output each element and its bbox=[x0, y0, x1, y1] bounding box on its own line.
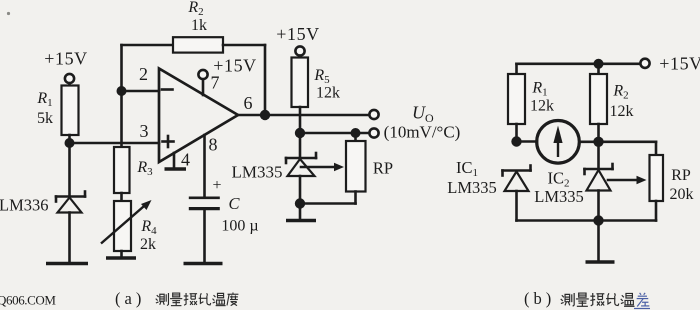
svg-text:+15V: +15V bbox=[44, 49, 88, 69]
wire R5 bottom down to LM335 bbox=[299, 107, 302, 158]
ground below LM335 bbox=[286, 219, 316, 223]
wire pin2 horizontal bbox=[122, 90, 160, 93]
capacitor C bbox=[189, 198, 220, 209]
svg-text:LM335: LM335 bbox=[232, 163, 283, 182]
wire output pin6 line bbox=[238, 114, 369, 117]
svg-text:RP: RP bbox=[671, 167, 691, 184]
node line2 junction bbox=[295, 128, 305, 138]
wire line2 to second terminal bbox=[300, 132, 369, 135]
svg-text:12k: 12k bbox=[316, 85, 340, 102]
wire IC2 bottom bbox=[597, 191, 600, 221]
svg-text:+: + bbox=[212, 177, 221, 194]
wire LM335 bottom bbox=[299, 176, 302, 204]
wire R1b bottom bbox=[515, 124, 518, 142]
node feedback/output junction bbox=[260, 110, 270, 120]
label R5 12k bbox=[313, 67, 340, 102]
svg-text:1k: 1k bbox=[191, 17, 207, 34]
temp sensor LM335 bbox=[286, 153, 316, 176]
svg-text:2: 2 bbox=[139, 64, 148, 84]
resistor R2 bbox=[173, 37, 223, 52]
wire R1b top stub bbox=[515, 64, 518, 74]
resistor R5 bbox=[292, 58, 309, 108]
wire R2b top stub bbox=[597, 64, 600, 74]
svg-text:20k: 20k bbox=[670, 186, 694, 203]
wire R1 bottom to node bbox=[68, 135, 71, 143]
wire feedback right vertical bbox=[264, 45, 267, 115]
arrow LM335 to RP bbox=[301, 163, 344, 172]
svg-text:7: 7 bbox=[211, 73, 220, 93]
resistor R2 b bbox=[590, 74, 607, 124]
svg-text:12k: 12k bbox=[530, 98, 554, 115]
wire meter right bbox=[580, 141, 599, 144]
svg-text:R2: R2 bbox=[612, 83, 628, 102]
resistor R1 b bbox=[508, 74, 525, 124]
svg-text:R2: R2 bbox=[187, 0, 203, 18]
svg-text:R5: R5 bbox=[313, 67, 330, 86]
op-amp minus sign bbox=[162, 88, 173, 91]
output terminal Uo bbox=[369, 110, 378, 119]
wire RP b top vertical bbox=[655, 142, 658, 155]
supply terminal +15V for R5 bbox=[276, 24, 320, 56]
svg-text:LM335: LM335 bbox=[534, 187, 584, 206]
caption a chinese: 测量摄氏温度 bbox=[156, 293, 239, 306]
wire ground stub LM335 bbox=[299, 204, 302, 220]
svg-text:6: 6 bbox=[244, 93, 253, 113]
wire R2b bottom through node to IC2 bbox=[597, 124, 600, 169]
node LM335/RP bottom junction bbox=[295, 198, 305, 208]
svg-text:8: 8 bbox=[209, 135, 218, 155]
wire R1 top bbox=[68, 83, 71, 86]
op-amp plus sign bbox=[163, 136, 174, 147]
temp sensor IC1 LM335 bbox=[503, 166, 531, 192]
label R2 1k bbox=[187, 0, 207, 34]
caption b chinese: 测量摄氏温差 bbox=[561, 293, 650, 309]
svg-text:R1: R1 bbox=[36, 90, 52, 109]
node pin2 junction bbox=[117, 86, 127, 96]
ground below LM336 bbox=[46, 262, 88, 266]
wire capacitor to ground bbox=[203, 209, 206, 263]
wire ground stub b bbox=[597, 221, 600, 262]
svg-text:R4: R4 bbox=[140, 218, 157, 237]
zener reference LM336 bbox=[56, 192, 85, 213]
label R4 2k bbox=[140, 218, 157, 253]
resistor R1 bbox=[62, 86, 79, 136]
wire R3 to R4 bbox=[120, 193, 123, 201]
svg-text:+15V: +15V bbox=[213, 56, 257, 76]
potentiometer R4 bbox=[101, 200, 152, 251]
wire node to RP b bbox=[599, 141, 657, 144]
wire pin8 down to capacitor bbox=[203, 135, 206, 197]
svg-text:R1: R1 bbox=[531, 80, 547, 99]
label IC2 LM335 bbox=[534, 169, 584, 207]
node junction R1/pin3/LM336 bbox=[65, 138, 75, 148]
wire IC1 bottom bbox=[515, 191, 518, 221]
wire pin3 horizontal bbox=[70, 142, 160, 145]
wire R4 to ground bbox=[120, 251, 123, 257]
svg-text:LM335: LM335 bbox=[447, 178, 497, 197]
node bottom rail junction bbox=[593, 215, 603, 225]
node RP top junction bbox=[351, 128, 361, 138]
node meter left bbox=[511, 136, 521, 146]
op-amp U1 bbox=[159, 69, 238, 163]
svg-text:12k: 12k bbox=[610, 103, 634, 120]
ground below R4 bbox=[106, 256, 136, 260]
wire node down to LM336 bbox=[68, 143, 71, 197]
ground pin4 bbox=[165, 167, 187, 171]
wire top rail b bbox=[517, 62, 641, 65]
arrow IC2 to RP b bbox=[608, 176, 647, 185]
svg-text:(10mV/°C): (10mV/°C) bbox=[384, 123, 461, 142]
svg-text:+15V: +15V bbox=[276, 24, 320, 44]
svg-text:C: C bbox=[228, 194, 240, 213]
potentiometer RP bbox=[300, 133, 366, 204]
node top rail junction bbox=[594, 59, 604, 69]
svg-text:IC1: IC1 bbox=[456, 158, 478, 179]
svg-text:LM336: LM336 bbox=[0, 196, 49, 215]
wire feedback top left bbox=[122, 44, 174, 47]
pin 4 ground stub bbox=[173, 153, 176, 168]
svg-text:100 µ: 100 µ bbox=[221, 218, 258, 235]
potentiometer RP b bbox=[650, 155, 664, 201]
svg-text:(b): (b) bbox=[524, 289, 555, 308]
wire LM336 to ground bbox=[68, 213, 71, 263]
svg-text:(a): (a) bbox=[115, 289, 145, 308]
label R2b 12k bbox=[610, 83, 634, 121]
svg-text:3: 3 bbox=[140, 121, 149, 141]
resistor R3 bbox=[114, 147, 130, 193]
label IC1 LM335 bbox=[447, 158, 497, 197]
svg-text:4: 4 bbox=[181, 150, 190, 170]
meter M1 bbox=[537, 121, 580, 164]
svg-text:+15V: +15V bbox=[659, 54, 700, 74]
ground b bbox=[586, 260, 615, 264]
wire meter left bbox=[517, 140, 538, 143]
wire R5 top bbox=[299, 56, 302, 58]
svg-text:5k: 5k bbox=[37, 110, 53, 127]
wire feedback left vertical / R3 branch bbox=[120, 45, 123, 147]
ground below capacitor bbox=[184, 262, 223, 266]
label R1b 12k bbox=[530, 80, 554, 115]
wire bottom rail b bbox=[517, 219, 657, 222]
svg-text:2k: 2k bbox=[140, 236, 156, 253]
wire feedback top right bbox=[223, 44, 265, 47]
pin 7 supply terminal +15V bbox=[198, 56, 256, 96]
label C 100u bbox=[221, 194, 258, 235]
label R1 5k bbox=[36, 90, 53, 127]
node meter right bbox=[593, 137, 603, 147]
svg-text:Q606.COM: Q606.COM bbox=[0, 293, 56, 308]
label RPb 20k bbox=[670, 167, 694, 203]
wire RP b bottom bbox=[655, 201, 658, 221]
output terminal 2 bbox=[369, 128, 378, 137]
supply terminal +15V for R1 bbox=[44, 49, 88, 84]
svg-text:RP: RP bbox=[373, 159, 393, 178]
svg-text:R3: R3 bbox=[136, 159, 153, 178]
supply terminal +15V b bbox=[640, 54, 700, 74]
temp sensor IC2 LM335 bbox=[585, 164, 613, 191]
